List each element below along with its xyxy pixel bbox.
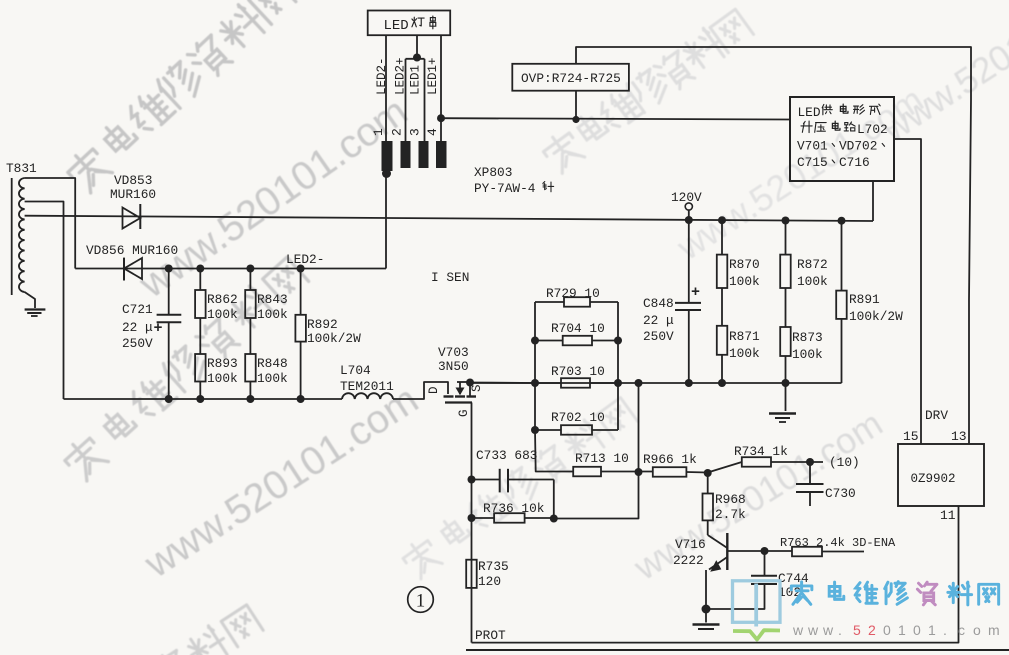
svg-text:100k/2W: 100k/2W xyxy=(849,309,903,324)
svg-text:100k: 100k xyxy=(792,347,823,362)
watermark row B0 corner xyxy=(874,0,1009,150)
svg-text:c: c xyxy=(958,622,965,638)
wire T831 bottom to ground xyxy=(25,292,35,308)
op-amp U1 0Z9902 controller xyxy=(898,444,984,506)
junction left bus ISEN xyxy=(531,379,539,387)
junction emitter node xyxy=(702,605,711,614)
svg-text:250V: 250V xyxy=(643,329,674,344)
resistor R891 xyxy=(836,220,903,383)
svg-text:R891: R891 xyxy=(849,292,880,307)
pin number 2 xyxy=(390,128,405,136)
junction R966 output xyxy=(704,469,712,477)
svg-text:TEM2011: TEM2011 xyxy=(340,379,394,394)
transistor V703 (MOSFET) xyxy=(427,345,484,417)
resistor R843 xyxy=(245,269,288,323)
capacitor C848 xyxy=(643,220,701,383)
junction on LED2- rail at R843 xyxy=(246,265,254,273)
drawing number 1 circled xyxy=(408,587,434,613)
resistor R872 xyxy=(780,220,828,289)
svg-text:C721: C721 xyxy=(122,302,153,317)
svg-text:G: G xyxy=(457,409,471,417)
wire right bus of bank xyxy=(617,302,619,430)
junction left bus R704 xyxy=(531,337,539,345)
resistor R729 xyxy=(535,286,618,307)
svg-text:LED1: LED1 xyxy=(409,65,423,95)
wire boost box to DRV pin15 xyxy=(894,139,921,444)
svg-text:C730: C730 xyxy=(825,486,856,501)
resistor R736 xyxy=(472,501,554,523)
svg-text:LED2+: LED2+ xyxy=(394,57,408,95)
ground at V716 emitter xyxy=(693,609,720,629)
wire top rail to pin13 xyxy=(576,47,971,444)
wire to pin2 xyxy=(405,59,407,141)
wire split bar xyxy=(406,58,425,60)
svg-text:VD853: VD853 xyxy=(114,173,152,188)
junction bus at R892 xyxy=(297,395,305,403)
svg-text:1: 1 xyxy=(371,128,386,136)
logo text 520101 site name xyxy=(791,582,998,605)
junction gate at R736 xyxy=(468,514,476,522)
resistor R704 xyxy=(535,321,618,345)
svg-text:100k: 100k xyxy=(729,274,760,289)
svg-text:R729 10: R729 10 xyxy=(546,286,600,301)
svg-text:R848: R848 xyxy=(257,356,288,371)
svg-text:PROT: PROT xyxy=(475,628,506,643)
svg-text:PY-7AW-4: PY-7AW-4 xyxy=(474,181,536,196)
svg-text:.: . xyxy=(838,622,842,638)
resistor R713 xyxy=(573,451,653,476)
junction on LED2- rail at R892 xyxy=(297,265,305,273)
node 120V xyxy=(671,190,702,220)
svg-text:XP803: XP803 xyxy=(474,165,512,180)
label box OVP xyxy=(512,64,629,91)
junction base node xyxy=(761,547,769,555)
diode VD856 xyxy=(86,243,178,281)
svg-text:C848: C848 xyxy=(643,296,674,311)
svg-text:C716: C716 xyxy=(839,155,870,170)
svg-text:m: m xyxy=(988,622,1000,638)
resistor R734 xyxy=(708,444,823,473)
svg-text:22 μ: 22 μ xyxy=(643,313,674,328)
svg-text:0: 0 xyxy=(913,622,921,638)
resistor R702 xyxy=(535,410,618,435)
wire 120V rail xyxy=(25,216,873,221)
resistor R763 xyxy=(765,536,897,556)
junction bus at R848 xyxy=(246,395,254,403)
resistor R873 xyxy=(780,288,823,383)
svg-text:T831: T831 xyxy=(6,161,37,176)
svg-text:D: D xyxy=(427,386,441,394)
label box LED string xyxy=(368,11,451,36)
svg-text:100k: 100k xyxy=(207,307,238,322)
svg-text:V701: V701 xyxy=(797,139,828,154)
capacitor C721 xyxy=(122,269,181,400)
svg-text:+: + xyxy=(691,284,700,301)
svg-text:MUR160: MUR160 xyxy=(110,187,156,202)
junction R734/C730 xyxy=(806,458,814,466)
svg-text:L702: L702 xyxy=(857,122,888,137)
resistor R703 xyxy=(535,364,618,388)
svg-text:R966 1k: R966 1k xyxy=(643,452,697,467)
junction on LED2- rail at C721 xyxy=(165,265,173,273)
diode VD853 xyxy=(110,173,156,229)
svg-text:4: 4 xyxy=(425,128,440,136)
svg-text:13: 13 xyxy=(951,429,967,444)
ground at ISEN row xyxy=(769,383,796,422)
watermark row A1 xyxy=(63,0,297,195)
wire left bus down to R713 xyxy=(535,430,573,472)
junction sense link at ISEN row xyxy=(635,379,643,387)
svg-text:I SEN: I SEN xyxy=(431,270,469,285)
svg-text:R873: R873 xyxy=(792,330,823,345)
wire emitter node to C744 bottom xyxy=(706,584,765,609)
svg-text:LED: LED xyxy=(798,105,821,120)
svg-text:2: 2 xyxy=(868,622,876,638)
logo url xyxy=(792,622,1000,638)
watermark row B3 xyxy=(136,377,426,586)
junction ISEN at C848 xyxy=(685,379,693,387)
junction OVP tap xyxy=(572,116,579,123)
svg-text:LED2-: LED2- xyxy=(286,252,324,267)
svg-text:OVP:R724-R725: OVP:R724-R725 xyxy=(521,71,621,86)
svg-text:w: w xyxy=(807,622,819,638)
svg-text:V703: V703 xyxy=(438,345,469,360)
junction right bus ISEN xyxy=(614,379,622,387)
svg-text:R968: R968 xyxy=(715,492,746,507)
wire L704 to V703 drain xyxy=(393,382,448,399)
svg-text:.: . xyxy=(943,622,947,638)
logo book icon xyxy=(733,581,781,627)
svg-text:R893: R893 xyxy=(207,356,238,371)
transistor V716 xyxy=(673,520,727,609)
svg-text:100k: 100k xyxy=(257,307,288,322)
capacitor C744 xyxy=(751,551,809,600)
wire ISEN row xyxy=(470,382,842,384)
svg-text:100k: 100k xyxy=(207,371,238,386)
label PY-7AW-4pin xyxy=(474,181,554,196)
svg-text:www.520101.com: www.520101.com xyxy=(131,89,416,307)
wire T831 top tap to VD856 anode xyxy=(25,178,76,269)
svg-text:(10): (10) xyxy=(829,455,860,470)
transformer T831 xyxy=(6,161,37,295)
connector pin 3 xyxy=(419,141,429,168)
capacitor C730 xyxy=(796,462,856,506)
svg-text:R872: R872 xyxy=(797,257,828,272)
pin number 3 xyxy=(408,128,423,136)
wire LED1+ to OVP and boost box xyxy=(441,118,790,119)
wire LED2- rail xyxy=(75,268,386,270)
svg-text:R871: R871 xyxy=(729,329,760,344)
junction bus at R893 xyxy=(196,395,204,403)
svg-text:www.520101.com: www.520101.com xyxy=(136,377,426,586)
svg-text:2222: 2222 xyxy=(673,553,704,568)
junction gate at C733 xyxy=(468,476,476,484)
ground at transformer xyxy=(25,308,46,310)
junction on LED2- rail at R862 xyxy=(196,265,204,273)
junction LED2+/LED1 tie xyxy=(413,54,421,62)
watermark row B4 xyxy=(626,402,890,588)
watermark row A4 xyxy=(399,394,638,581)
svg-text:LED1+: LED1+ xyxy=(426,57,440,95)
resistor R892 xyxy=(295,269,361,400)
connector pin 1 xyxy=(382,141,393,171)
logo ribbon xyxy=(733,630,780,639)
svg-text:+: + xyxy=(154,320,163,337)
svg-text:C733 683: C733 683 xyxy=(476,448,537,463)
svg-text:C744: C744 xyxy=(778,571,809,586)
svg-text:2: 2 xyxy=(390,128,405,136)
svg-text:VD856 MUR160: VD856 MUR160 xyxy=(86,243,178,258)
pin number 1 xyxy=(371,128,386,136)
svg-text:w: w xyxy=(822,622,834,638)
junction rail at R872 xyxy=(782,217,790,225)
watermark row A3 xyxy=(60,254,309,484)
wire LED2+/LED1 common xyxy=(416,35,418,57)
resistor R848 xyxy=(245,318,288,399)
junction rail at 120V/C848 xyxy=(685,216,693,224)
junction ISEN at R873/ground xyxy=(782,379,790,387)
wire left bus of bank xyxy=(534,302,536,430)
junction left bus R702 xyxy=(531,426,539,434)
svg-text:100k/2W: 100k/2W xyxy=(307,331,361,346)
svg-text:1: 1 xyxy=(416,591,426,612)
svg-text:L704: L704 xyxy=(340,363,371,378)
wire to R713/R966 junction xyxy=(554,383,639,519)
wire V716 base to C744/R763 xyxy=(727,550,764,552)
svg-text:100k: 100k xyxy=(797,274,828,289)
svg-text:VD702: VD702 xyxy=(839,139,877,154)
label LED2- vertical xyxy=(375,57,389,95)
junction bus at C721 xyxy=(165,395,173,403)
wire LED1+ pin4 xyxy=(440,35,442,141)
label box LED boost circuit xyxy=(790,97,894,181)
label LED2+ vertical xyxy=(394,57,408,95)
watermark row A5 partial xyxy=(12,601,264,655)
svg-text:1: 1 xyxy=(898,622,906,638)
wire PROT line to pin11 xyxy=(472,506,959,643)
junction right bus R704 xyxy=(614,337,622,345)
svg-text:100k: 100k xyxy=(257,371,288,386)
wire LED2- pin1 xyxy=(385,35,387,141)
svg-text:0: 0 xyxy=(883,622,891,638)
watermark row B1 xyxy=(131,89,416,307)
capacitor C733 xyxy=(472,448,554,518)
svg-text:5: 5 xyxy=(853,622,861,638)
svg-text:R763 2.4k 3D-ENA: R763 2.4k 3D-ENA xyxy=(780,536,896,550)
wire boost box bottom to 120V rail xyxy=(872,181,874,221)
wire T831 tap to return bus xyxy=(25,202,64,400)
inductor L704 xyxy=(340,363,394,399)
svg-text:11: 11 xyxy=(940,508,956,523)
junction rail at R891 xyxy=(838,217,846,225)
svg-text:V716: V716 xyxy=(675,537,706,552)
junction ISEN at R871 xyxy=(718,379,726,387)
svg-text:R870: R870 xyxy=(729,257,760,272)
junction rail at R870 xyxy=(718,216,726,224)
svg-text:o: o xyxy=(973,622,981,638)
svg-text:22 μ: 22 μ xyxy=(122,320,153,335)
svg-text:250V: 250V xyxy=(122,336,153,351)
connector pin 4 xyxy=(436,141,447,168)
wire return bus xyxy=(64,398,343,400)
wire pin1 to LED2- rail xyxy=(385,175,387,269)
resistor R968 xyxy=(703,473,747,522)
wire V703 gate down xyxy=(471,403,473,643)
junction LED1+ tap xyxy=(437,114,445,122)
wire V703 source to ISEN row xyxy=(470,382,535,385)
watermark row B2 xyxy=(669,79,930,269)
resistor R862 xyxy=(195,269,238,323)
svg-text:15: 15 xyxy=(903,429,919,444)
svg-text:120: 120 xyxy=(478,574,501,589)
wire to pin3 xyxy=(424,59,426,141)
svg-text:1: 1 xyxy=(928,622,936,638)
junction R736/C733 right xyxy=(550,515,558,523)
resistor R871 xyxy=(717,288,760,383)
connector pin 2 xyxy=(401,141,411,168)
junction sense link at R713 row xyxy=(635,468,643,476)
svg-text:R843: R843 xyxy=(257,292,288,307)
svg-text:C715: C715 xyxy=(797,155,828,170)
svg-text:LED: LED xyxy=(384,18,409,34)
svg-text:w: w xyxy=(792,622,804,638)
svg-text:0Z9902: 0Z9902 xyxy=(911,472,956,486)
svg-text:R862: R862 xyxy=(207,292,238,307)
label LED1+ vertical xyxy=(426,57,440,95)
watermark row A2 xyxy=(539,6,754,176)
wire OVP box to LED1+ wire xyxy=(575,91,577,120)
svg-text:2.7k: 2.7k xyxy=(715,507,746,522)
bottom frame line xyxy=(466,649,1009,651)
svg-text:DRV: DRV xyxy=(925,408,948,423)
svg-text:100k: 100k xyxy=(729,346,760,361)
svg-text:R735: R735 xyxy=(478,559,509,574)
pin number 4 xyxy=(425,128,440,136)
svg-text:R713 10: R713 10 xyxy=(575,451,629,466)
svg-text:R702 10: R702 10 xyxy=(551,410,605,425)
svg-text:R892: R892 xyxy=(307,317,338,332)
label LED1 vertical xyxy=(409,65,423,95)
svg-text:R704 10: R704 10 xyxy=(551,321,605,336)
resistor R966 xyxy=(643,452,708,477)
resistor R870 xyxy=(717,220,760,289)
resistor R893 xyxy=(195,318,238,399)
junction V703 source xyxy=(466,379,474,387)
svg-text:3N50: 3N50 xyxy=(438,359,469,374)
svg-text:3: 3 xyxy=(408,128,423,136)
svg-text:R703 10: R703 10 xyxy=(551,364,605,379)
svg-text:LED2-: LED2- xyxy=(375,57,389,95)
resistor R735 xyxy=(466,559,509,589)
